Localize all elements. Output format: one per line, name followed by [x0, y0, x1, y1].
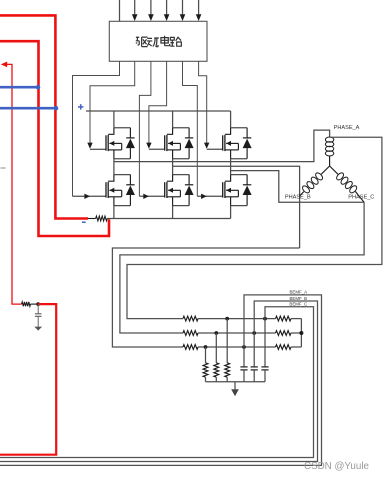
ground arrow 2	[34, 327, 42, 331]
wire row1 pulldown	[226, 319, 228, 363]
capacitor C2	[251, 367, 258, 370]
gray dash marker	[1, 167, 6, 169]
mosfet Q4	[165, 175, 181, 206]
wire row1 cap feed	[264, 319, 266, 367]
arrow into top gate leg2	[146, 143, 165, 150]
wire row3 pulldown	[205, 347, 207, 363]
wire row1 to neutral	[291, 318, 301, 320]
junction probe 2	[54, 106, 59, 111]
wire resistor to junction	[31, 303, 39, 305]
arrow into top gate leg1	[87, 143, 106, 150]
arrow into bottom gate leg1	[73, 194, 107, 199]
wire leg2 drain bar top	[173, 111, 190, 159]
svg-text:BEMF_B: BEMF_B	[290, 296, 308, 301]
probe wire 1 (blue)	[0, 86, 38, 89]
label PHASE_A	[334, 125, 360, 131]
shunt lead wire	[88, 218, 96, 220]
body diode D1	[126, 128, 135, 159]
sense wire (red)	[6, 64, 21, 304]
wire pin6 to Q5 gate	[199, 61, 207, 143]
label BEMF_C	[289, 302, 307, 307]
body diode D5	[243, 128, 252, 159]
sense arrow (red)	[1, 62, 7, 68]
wire cap to ground rail	[253, 370, 255, 382]
wire pin2 to Q1 gate	[90, 61, 135, 143]
wire cap to ground rail	[264, 370, 266, 382]
svg-text:CSDN @Yuule: CSDN @Yuule	[304, 461, 369, 472]
wire BEMF_A	[0, 295, 322, 466]
label PHASE_C	[348, 195, 374, 201]
svg-text:BEMF_C: BEMF_C	[289, 302, 307, 307]
ground arrow	[231, 382, 239, 397]
capacitor C1	[261, 367, 268, 370]
wire junction to capacitor	[37, 304, 39, 313]
body diode D2	[126, 175, 135, 206]
junction neutral	[299, 331, 303, 335]
wire leg3 phase column	[231, 159, 248, 219]
driver input wire 1	[119, 0, 121, 21]
wire winding A to Y center	[329, 156, 331, 166]
wire cap to ground rail	[243, 370, 245, 382]
junction row2 bemf tap	[252, 331, 256, 335]
wire pulldown to ground rail	[205, 377, 207, 382]
wire phase A sense loop	[127, 137, 382, 318]
label 驱动电路 (drive circuit)	[136, 36, 182, 47]
junction row1 bemf tap	[263, 317, 267, 321]
wire row3	[198, 346, 276, 348]
wire leg1 drain bar top	[114, 111, 130, 159]
wire leg2 phase column	[173, 159, 190, 219]
winding B (inductor)	[301, 172, 324, 195]
wire phase A lane	[114, 130, 330, 162]
ground rail wire	[206, 381, 266, 383]
label BEMF_B	[290, 296, 308, 301]
arrow into bottom gate leg3	[197, 194, 222, 199]
label +	[78, 104, 83, 109]
mosfet Q6	[223, 175, 239, 206]
svg-text:PHASE_A: PHASE_A	[334, 125, 360, 131]
wire phase B lane	[173, 166, 300, 248]
wire leg1 phase column	[114, 159, 130, 219]
wire pin3 to Q4 gate	[139, 61, 151, 196]
capacitor C3	[240, 367, 247, 370]
arrow into top gate leg3	[204, 143, 223, 150]
wire BEMF_B	[0, 301, 318, 462]
junction probe 1	[36, 85, 41, 90]
resistor pulldown R18	[203, 363, 208, 377]
mosfet Q2	[106, 175, 122, 206]
wire pulldown to ground rail	[215, 377, 217, 382]
wire Y center to winding C	[330, 166, 338, 174]
svg-text:PHASE_B: PHASE_B	[285, 195, 311, 201]
junction row3 bemf tap	[242, 345, 246, 349]
wire leg3 drain bar top	[231, 111, 248, 159]
wire phase C sense loop	[120, 202, 364, 333]
winding A (inductor)	[325, 137, 334, 156]
svg-text:BEMF_A: BEMF_A	[290, 290, 308, 295]
junction sense node	[36, 302, 40, 306]
body diode D6	[243, 175, 252, 206]
mosfet Q5	[223, 128, 239, 159]
driver input wire 3 with arrow	[148, 0, 154, 21]
junction row1 pulldown tap	[225, 317, 229, 321]
wire row2 to neutral	[291, 332, 301, 334]
wire pin5 to Q6 gate	[183, 61, 198, 196]
resistor row1 to neutral R13	[276, 316, 292, 321]
resistor row3 series R12	[183, 345, 198, 350]
mosfet Q3	[165, 128, 181, 159]
label PHASE_B	[285, 195, 311, 201]
divider resistor R20	[22, 302, 31, 306]
wire pin4 to Q3 gate	[149, 61, 167, 143]
wire row3 cap feed	[243, 347, 245, 366]
resistor pulldown R16	[225, 363, 230, 377]
wire BEMF_C	[0, 307, 314, 458]
resistor row3 to neutral R15	[276, 345, 292, 350]
driver input wire 5 with arrow	[180, 0, 186, 21]
resistor row1 series R10	[183, 316, 198, 321]
wire row2	[198, 332, 276, 334]
supply return wire (red)	[0, 41, 109, 236]
resistor pulldown R17	[214, 363, 219, 377]
driver input wire 6 with arrow	[196, 0, 202, 21]
mosfet Q1	[106, 128, 122, 159]
driver circuit box U1	[109, 21, 207, 61]
probe wire 2 (blue)	[0, 107, 56, 110]
arrow into bottom gate leg2	[139, 194, 164, 199]
supply wire V+ (red)	[0, 15, 88, 218]
sense output wire (red)	[0, 304, 56, 455]
wire row2 cap feed	[253, 333, 255, 366]
junction row3 pulldown tap	[204, 345, 208, 349]
bottom rail wire	[107, 218, 230, 220]
resistor row2 to neutral R14	[276, 331, 292, 336]
wire row1	[198, 318, 276, 320]
driver input wire 4 with arrow	[164, 0, 170, 21]
body diode D3	[185, 128, 194, 159]
junction row2 pulldown tap	[214, 331, 218, 335]
watermark CSDN @Yuule	[304, 461, 369, 472]
wire pin1 to Q2 gate	[73, 61, 120, 196]
wire pulldown to ground rail	[226, 377, 228, 382]
wire row2 pulldown	[215, 333, 217, 363]
DC+ rail wire	[86, 110, 231, 112]
label BEMF_A	[290, 290, 308, 295]
body diode D4	[185, 175, 194, 206]
wire winding C to node	[355, 192, 364, 203]
wire Y center to winding B	[321, 166, 329, 174]
wire row3 to neutral	[291, 346, 301, 348]
label -	[82, 221, 86, 223]
shunt resistor R1	[96, 216, 108, 221]
capacitor C4	[35, 314, 42, 317]
resistor row2 series R11	[183, 331, 198, 336]
wire winding B to node	[300, 192, 304, 196]
wire phase B sense loop	[112, 248, 299, 347]
driver input wire 2 with arrow	[132, 0, 138, 21]
svg-text:PHASE_C: PHASE_C	[348, 195, 374, 201]
winding C (inductor)	[335, 172, 358, 195]
wire phase C lane	[231, 171, 365, 203]
wire virtual neutral node	[300, 319, 302, 347]
wire capacitor to ground	[37, 316, 39, 326]
